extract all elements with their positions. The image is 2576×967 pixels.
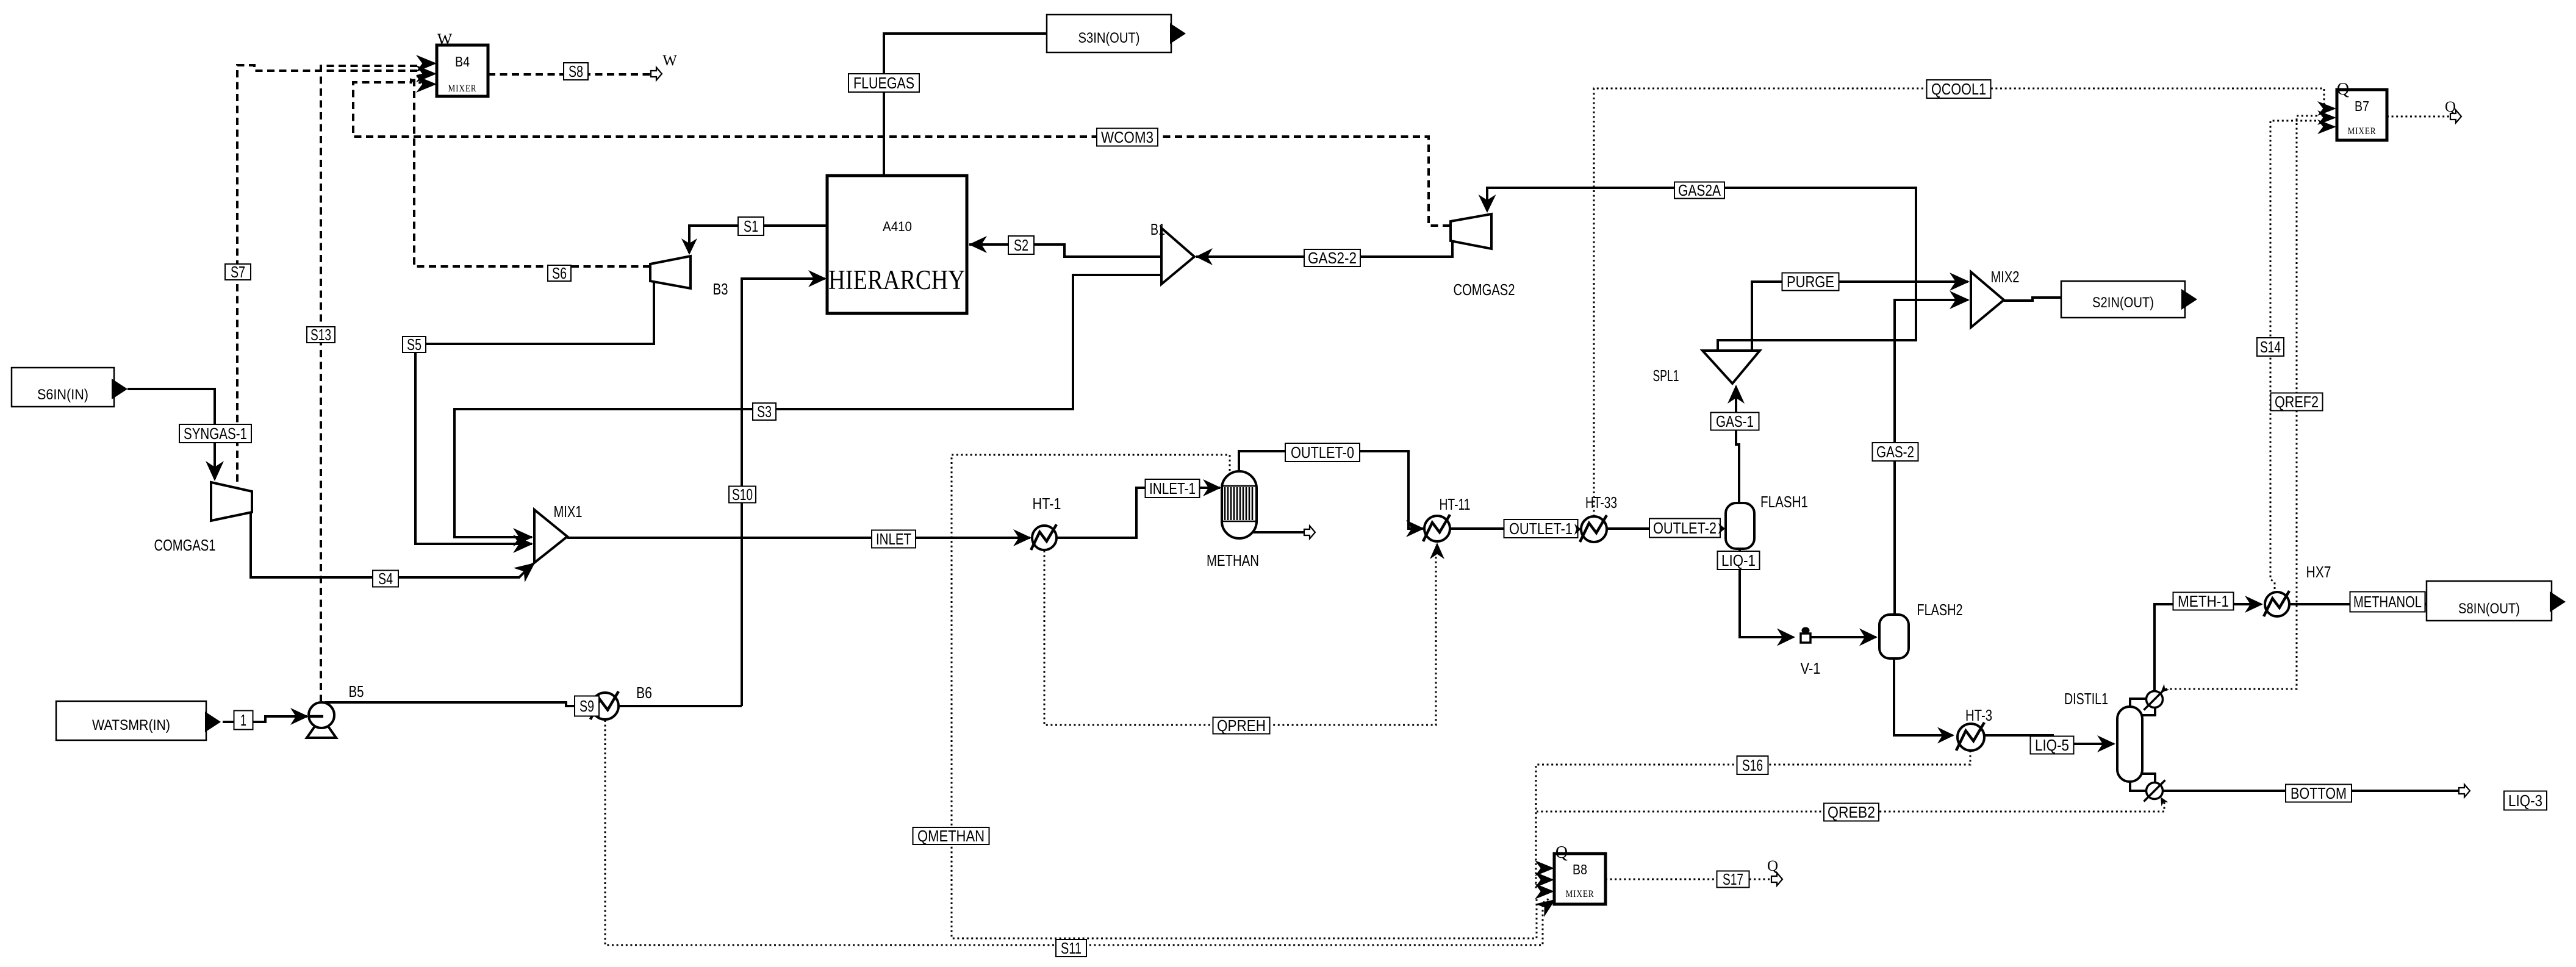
- valve V-1: [1802, 627, 1810, 634]
- heat stream QCOOL1 (HT-33 to mixer B7, dotted): [1594, 88, 2324, 516]
- svg-text:MIX1: MIX1: [554, 502, 583, 521]
- svg-text:S1: S1: [744, 217, 758, 235]
- label GAS-1: [1711, 413, 1759, 430]
- svg-text:LIQ-1: LIQ-1: [1721, 551, 1756, 569]
- stream GAS2A (SPL1 to COMGAS2): [1487, 188, 1916, 351]
- label BOTTOM: [2286, 785, 2352, 802]
- heater HT-1: [1032, 526, 1057, 550]
- svg-text:S3IN(OUT): S3IN(OUT): [1078, 30, 1140, 46]
- svg-text:INLET-1: INLET-1: [1149, 479, 1196, 498]
- arrowhead S10 into A410: [808, 270, 827, 287]
- svg-text:QMETHAN: QMETHAN: [917, 827, 985, 845]
- label S1: [738, 217, 764, 235]
- stream METHAN bottom product: [1252, 531, 1304, 533]
- label PURGE: [1782, 273, 1839, 291]
- svg-text:Q: Q: [1767, 858, 1778, 874]
- svg-text:DISTIL1: DISTIL1: [2064, 690, 2108, 708]
- svg-text:S7: S7: [231, 263, 245, 281]
- svg-text:COMGAS2: COMGAS2: [1454, 280, 1515, 299]
- svg-text:HT-11: HT-11: [1440, 495, 1471, 513]
- label METH-1: [2173, 593, 2234, 610]
- svg-text:S8: S8: [569, 62, 583, 80]
- label S11: [1056, 940, 1086, 957]
- flash drum FLASH1: [1726, 503, 1754, 549]
- output box S3IN(OUT): [1047, 15, 1171, 52]
- compressor COMGAS2: [1451, 214, 1491, 249]
- output box S8IN(OUT): [2427, 581, 2552, 621]
- svg-text:S9: S9: [579, 697, 594, 715]
- arrowhead OUTLET-0 into HT-11: [1406, 520, 1424, 537]
- arrowheads heat streams into B8: [1535, 860, 1554, 876]
- label LIQ-1: [1718, 551, 1760, 569]
- svg-text:WCOM3: WCOM3: [1101, 128, 1153, 146]
- stream BOTTOM (reboiler to LIQ-3 output): [2163, 790, 2459, 792]
- label S2: [1008, 236, 1034, 254]
- stream S10 (heater B6 outlet to A410 hierarchy): [742, 279, 825, 706]
- heater HX7: [2265, 592, 2289, 616]
- mixer MIX1: [534, 510, 567, 563]
- stream INLET (MIX1 outlet to HT-1): [567, 537, 1030, 539]
- arrowhead SYNGAS-1 into COMGAS1: [206, 461, 224, 481]
- stream OUTLET-2 (HT-33 to FLASH1): [1607, 527, 1724, 530]
- svg-text:INLET: INLET: [876, 530, 911, 548]
- work stream S6 (B3 duty to mixer B4, dashed): [414, 75, 650, 266]
- arrowheads heat streams into B7: [2317, 101, 2336, 116]
- mixer block B7: [2337, 90, 2387, 140]
- compressor COMGAS1: [211, 482, 252, 521]
- arrowhead INLET into HT-1: [1013, 529, 1031, 546]
- label S16: [1737, 756, 1768, 774]
- compressor B3: [650, 256, 691, 288]
- svg-text:GAS-2: GAS-2: [1876, 443, 1914, 461]
- heater B6: [592, 693, 619, 719]
- svg-text:GAS2-2: GAS2-2: [1308, 249, 1357, 267]
- svg-text:S14: S14: [2260, 338, 2281, 356]
- arrowhead S4 into MIX1: [514, 555, 540, 582]
- arrowhead GAS-1 into SPL1: [1727, 385, 1745, 404]
- svg-text:B8: B8: [1573, 862, 1587, 877]
- label INLET-1: [1146, 479, 1200, 498]
- heat stream QMETHAN (METHAN reactor to mixer B8, dotted): [952, 455, 1537, 938]
- stream S5 (B3 outlet to MIX1): [415, 282, 654, 544]
- label SYNGAS-1: [179, 424, 251, 443]
- svg-text:S11: S11: [1061, 939, 1082, 957]
- arrowheads work streams into B4: [416, 55, 437, 72]
- svg-text:MIXER: MIXER: [448, 84, 477, 94]
- stream LIQ-1 (FLASH1 bottom to valve V-1): [1740, 549, 1793, 637]
- stream S9 (pump B5 outlet through heater B6): [325, 702, 742, 706]
- label LIQ-3: [2504, 791, 2547, 810]
- stream SYNGAS-1 (S6IN feed to COMGAS1): [127, 389, 215, 479]
- svg-text:METHAN: METHAN: [1207, 551, 1259, 569]
- svg-text:FLASH2: FLASH2: [1917, 601, 1963, 619]
- svg-text:Q: Q: [2445, 99, 2456, 115]
- label GAS2-2: [1304, 249, 1360, 266]
- svg-text:COMGAS1: COMGAS1: [154, 536, 216, 554]
- label S14: [2257, 338, 2284, 356]
- work stream S7 (COMGAS1 duty to mixer B4, dashed): [237, 65, 417, 486]
- label OUTLET-1: [1504, 519, 1578, 538]
- arrowhead S3 into MIX1: [513, 528, 533, 546]
- hierarchy block A410: [827, 176, 967, 313]
- arrowhead INLET-1 into METHAN: [1203, 479, 1221, 496]
- stream OUTLET-0 (METHAN top to HT-11): [1239, 451, 1423, 529]
- arrowhead OUTLET-2 into FLASH1: [1718, 523, 1725, 534]
- svg-text:METHANOL: METHANOL: [2353, 593, 2422, 611]
- flash drum FLASH2: [1879, 615, 1909, 658]
- stream GAS2-2 (COMGAS2 to valve B1): [1196, 241, 1452, 257]
- stream PURGE (SPL1 to MIX2): [1752, 282, 1968, 351]
- arrowhead GAS2-2 into B1: [1196, 248, 1213, 265]
- work stream WCOM3 (COMGAS2 duty to mixer B4, dashed): [353, 80, 1450, 226]
- label QREF2: [2271, 393, 2323, 411]
- svg-text:GAS-1: GAS-1: [1716, 412, 1754, 430]
- svg-text:QREF2: QREF2: [2275, 393, 2319, 411]
- svg-text:WATSMR(IN): WATSMR(IN): [92, 717, 170, 733]
- svg-text:S4: S4: [378, 569, 393, 588]
- svg-text:W: W: [662, 52, 677, 69]
- label S6: [548, 265, 571, 281]
- label LIQ-5: [2031, 737, 2074, 754]
- svg-text:B3: B3: [713, 280, 728, 298]
- stream S4 (COMGAS1 outlet to MIX1): [251, 513, 533, 577]
- svg-text:HIERARCHY: HIERARCHY: [828, 265, 965, 295]
- arrowhead GAS2A into COMGAS2: [1479, 194, 1496, 213]
- arrowhead LIQ-5 into DISTIL1: [2097, 735, 2115, 752]
- svg-text:OUTLET-0: OUTLET-0: [1291, 443, 1354, 462]
- label S8: [564, 63, 588, 80]
- heater HT-33: [1581, 516, 1607, 542]
- label S7: [225, 264, 251, 280]
- label S5: [403, 337, 426, 352]
- output box S2IN(OUT): [2061, 281, 2185, 318]
- heat stream QPREH (HT-1 to HT-11, dotted): [1044, 544, 1436, 725]
- label 1: [234, 711, 253, 730]
- open arrow Q after B7: [2450, 110, 2461, 123]
- stream GAS-2 (FLASH2 top to MIX2): [1895, 300, 1968, 615]
- arrowhead QREF2 into condenser: [2158, 684, 2170, 696]
- svg-text:QCOOL1: QCOOL1: [1931, 80, 1986, 98]
- mixer block B4: [437, 45, 488, 96]
- svg-text:S2IN(OUT): S2IN(OUT): [2092, 294, 2154, 311]
- arrowhead S5 into MIX1: [513, 535, 533, 553]
- svg-text:W: W: [437, 30, 453, 48]
- svg-text:S2: S2: [1014, 236, 1028, 254]
- arrowhead into FLASH2: [1859, 629, 1878, 646]
- svg-text:Q: Q: [1555, 843, 1568, 862]
- svg-text:B1: B1: [1150, 220, 1165, 238]
- svg-text:HT-33: HT-33: [1585, 493, 1617, 512]
- mixer MIX2: [1971, 272, 2004, 327]
- reactor METHAN: [1222, 471, 1257, 538]
- heat stream QREF2 (condenser to mixer B7, dotted): [2165, 116, 2318, 689]
- label S3: [753, 403, 776, 420]
- svg-text:S6IN(IN): S6IN(IN): [37, 387, 88, 403]
- input box S6IN(IN): [12, 368, 114, 407]
- svg-text:OUTLET-1: OUTLET-1: [1509, 519, 1573, 538]
- svg-text:MIXER: MIXER: [1566, 889, 1595, 899]
- label OUTLET-0: [1285, 443, 1360, 462]
- reboiler of DISTIL1: [2147, 783, 2163, 799]
- label QMETHAN: [913, 827, 989, 844]
- svg-text:SYNGAS-1: SYNGAS-1: [184, 424, 247, 443]
- label QCOOL1: [1927, 80, 1991, 98]
- svg-text:S13: S13: [310, 326, 331, 344]
- label OUTLET-2: [1649, 519, 1720, 538]
- svg-text:1: 1: [240, 711, 246, 729]
- valve B1: [1161, 228, 1194, 284]
- arrowhead 1 into pump B5: [290, 708, 309, 725]
- svg-text:METH-1: METH-1: [2178, 592, 2229, 610]
- arrowhead PURGE into MIX2: [1950, 273, 1970, 291]
- stream S3 (B1 outlet to MIX1): [454, 275, 1161, 537]
- label METHANOL: [2350, 592, 2425, 612]
- column DISTIL1: [2117, 707, 2142, 782]
- heater HT-3: [1957, 724, 1984, 751]
- heater HT-11: [1424, 516, 1450, 541]
- svg-text:FLUEGAS: FLUEGAS: [853, 74, 914, 92]
- splitter SPL1: [1702, 351, 1760, 384]
- work stream S8 (mixer B4 output, dashed): [488, 73, 650, 76]
- label S17: [1717, 871, 1749, 888]
- svg-text:MIXER: MIXER: [2348, 126, 2377, 137]
- stream V-1 outlet to FLASH2: [1810, 636, 1876, 638]
- svg-text:S16: S16: [1742, 756, 1763, 774]
- svg-text:HT-3: HT-3: [1965, 706, 1992, 724]
- arrowhead QPREH into HT-11: [1430, 543, 1444, 559]
- stream S2 (B1 to A410 hierarchy): [969, 244, 1161, 257]
- svg-text:S8IN(OUT): S8IN(OUT): [2458, 601, 2520, 617]
- stream 1 (WATSMR feed to pump B5): [223, 721, 234, 723]
- label S13: [307, 327, 335, 343]
- label GAS2A: [1674, 182, 1724, 199]
- svg-text:HT-1: HT-1: [1033, 494, 1061, 513]
- label GAS-2: [1873, 443, 1918, 461]
- stream S2IN link (MIX2 outlet): [2004, 298, 2061, 301]
- svg-text:LIQ-3: LIQ-3: [2508, 791, 2542, 810]
- svg-text:B6: B6: [636, 683, 652, 702]
- open arrow Q after S17: [1771, 873, 1782, 886]
- svg-text:S10: S10: [732, 485, 753, 504]
- svg-text:SPL1: SPL1: [1653, 366, 1679, 385]
- heat stream S11 (heater B6 to mixer B8, dotted): [605, 720, 1551, 945]
- svg-text:S5: S5: [407, 335, 422, 354]
- arrowhead GAS-2 into MIX2: [1950, 291, 1970, 309]
- svg-text:MIX2: MIX2: [1991, 268, 2020, 286]
- input box WATSMR(IN): [56, 701, 206, 740]
- label S4: [373, 571, 398, 587]
- condenser piping: [2130, 699, 2147, 707]
- heat stream QREB2 (reboiler to mixer B8, dotted): [1537, 802, 2164, 812]
- svg-text:S3: S3: [757, 402, 772, 421]
- arrowhead LIQ-2 into HT-3: [1937, 727, 1954, 744]
- arrowhead S2 into A410: [969, 236, 987, 253]
- svg-text:QPREH: QPREH: [1217, 716, 1266, 735]
- condenser of DISTIL1: [2147, 691, 2163, 708]
- svg-text:PURGE: PURGE: [1787, 273, 1834, 291]
- label QREB2: [1824, 804, 1879, 821]
- svg-text:HX7: HX7: [2306, 563, 2331, 581]
- arrowhead METH-1 into HX7: [2245, 596, 2263, 613]
- svg-text:B5: B5: [349, 682, 364, 701]
- heat stream S16 (HT-3 to mixer B8, dotted): [1536, 751, 1970, 890]
- reboiler piping: [2130, 782, 2147, 791]
- arrowhead LIQ-1 into V-1: [1777, 629, 1795, 646]
- stream LIQ-5 (HT-3 to DISTIL1): [1984, 735, 2114, 744]
- stream METHANOL (HX7 to S8IN output): [2289, 603, 2427, 605]
- svg-text:BOTTOM: BOTTOM: [2291, 784, 2347, 802]
- heat stream S14 (HX7 to mixer B7, dotted): [2270, 121, 2318, 589]
- open arrow BOTTOM to LIQ-3: [2459, 785, 2470, 798]
- pump B5: [307, 726, 336, 738]
- open arrow W after S8: [651, 68, 662, 80]
- work stream S13 (pump B5 duty to mixer B4, dashed): [321, 66, 417, 701]
- svg-text:B4: B4: [455, 54, 470, 70]
- arrowhead QREB2 into reboiler: [2157, 795, 2168, 807]
- svg-text:A410: A410: [883, 219, 912, 234]
- label QPREH: [1213, 718, 1270, 734]
- svg-text:Q: Q: [2337, 80, 2349, 99]
- label FLUEGAS: [849, 74, 919, 92]
- label S9: [575, 696, 599, 716]
- open arrow after METHAN bottom product: [1304, 526, 1315, 539]
- heat stream S17 (mixer B8 output, dotted): [1606, 879, 1771, 880]
- svg-text:LIQ-5: LIQ-5: [2035, 736, 2069, 754]
- label S10: [729, 487, 756, 503]
- stream INLET-1 (HT-1 outlet to METHAN reactor): [1057, 488, 1220, 538]
- stream OUTLET-1 (HT-11 to HT-33): [1450, 527, 1579, 530]
- svg-text:B7: B7: [2355, 98, 2369, 114]
- svg-text:GAS2A: GAS2A: [1678, 181, 1721, 199]
- arrowhead S1 into B3: [681, 238, 697, 255]
- label INLET: [872, 530, 916, 548]
- mixer block B8: [1554, 854, 1606, 904]
- stream LIQ-2 (FLASH2 bottom to HT-3): [1894, 658, 1953, 735]
- heat stream Q (mixer B7 output, dotted): [2387, 116, 2450, 118]
- svg-text:V-1: V-1: [1801, 659, 1821, 677]
- label WCOM3: [1097, 129, 1158, 146]
- arrowhead OUTLET-1 into HT-33: [1574, 524, 1581, 535]
- svg-text:FLASH1: FLASH1: [1760, 493, 1808, 511]
- stream S1 (A410 hierarchy to B3): [689, 226, 827, 253]
- svg-text:OUTLET-2: OUTLET-2: [1653, 519, 1717, 537]
- svg-text:S6: S6: [552, 264, 567, 282]
- stream GAS-1 (FLASH1 top to splitter SPL1): [1736, 387, 1739, 503]
- stream FLUEGAS (A410 to S3IN output): [884, 34, 1047, 176]
- stream METH-1 (condenser to HX7): [2154, 604, 2261, 691]
- svg-text:S17: S17: [1723, 870, 1743, 888]
- svg-text:QREB2: QREB2: [1828, 803, 1875, 821]
